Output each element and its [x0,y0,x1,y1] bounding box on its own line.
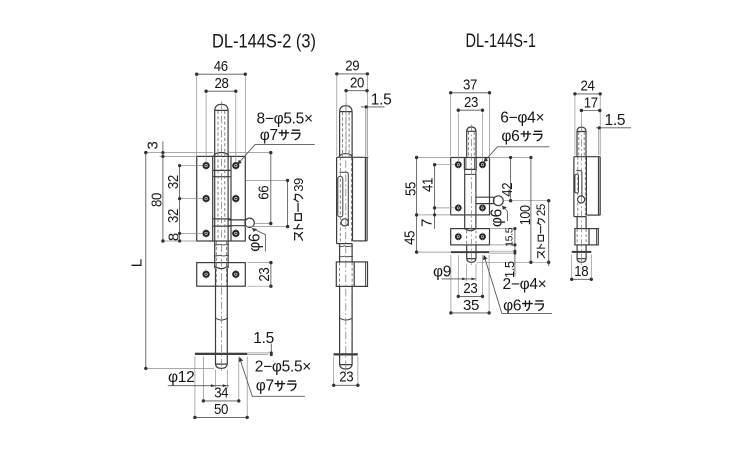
svg-text:46: 46 [214,58,228,75]
housing outer edges [213,156,231,241]
collar R [464,158,476,169]
dim text stroke25 [536,204,548,258]
dim line 23 side [334,384,358,386]
ext plate top left [160,155,197,157]
ext stroke39 bottom [244,226,288,228]
slot RS [575,174,579,193]
lower guide plate R [451,229,490,245]
svg-text:32: 32 [165,175,182,189]
hidden rod dashed in lower plate R [467,231,476,245]
svg-text:φ6: φ6 [503,298,521,315]
ext collar top level [146,152,272,154]
rod below block RS [577,245,586,251]
dim line 37 [451,92,490,94]
svg-text:6−φ4×: 6−φ4× [500,109,544,126]
lower band [213,219,231,226]
svg-text:φ6: φ6 [247,234,264,252]
ext 50 [195,357,247,420]
knob arm R [476,197,494,203]
rod dome R [467,127,476,131]
plate front RS [598,157,600,215]
svg-text:DL-144S-1: DL-144S-1 [466,30,537,52]
svg-text:23: 23 [464,94,478,111]
ext tip level left [146,367,214,369]
centerline [220,102,222,372]
svg-text:3: 3 [145,142,162,150]
leader 1.5 side [361,106,385,108]
rod hidden between plates dashed [216,242,226,286]
ext phi9 [467,264,476,282]
svg-text:φ12: φ12 [168,369,194,386]
svg-text:DL-144S-2 (3): DL-144S-2 (3) [212,31,316,53]
screw holes R [456,162,485,239]
svg-text:8: 8 [166,233,183,241]
dim line 41 and 7 [434,165,436,229]
svg-text:7: 7 [419,219,436,227]
lower block RS [575,229,598,245]
svg-text:18: 18 [574,263,588,280]
hidden rod dashed in body [340,157,351,243]
dim text stroke39 [291,178,306,240]
rod tip RS [577,253,586,262]
leader phi12 [168,385,229,387]
centerline R [470,125,472,266]
plate back line [366,157,368,241]
ext base plate right [247,353,272,355]
ext 29 [337,76,368,156]
rod solid below lower plate R [467,245,476,259]
ext 1.5 plate verticals [365,108,367,156]
collar inner lines R [466,158,475,169]
rod above body [340,112,353,158]
dim line 28 [206,90,236,92]
dim line 34 [203,400,238,402]
dim line 45 [416,215,418,252]
knob ball [245,218,254,227]
svg-text:37: 37 [463,77,477,94]
dim chain line [179,166,181,241]
ext 24 [575,96,600,156]
rod R [467,131,476,158]
dim line 24 [575,93,600,95]
taper notch R [464,169,476,174]
break squiggle lower [214,254,229,257]
svg-text:23: 23 [463,280,477,297]
screw holes lower plate [204,272,209,277]
rod hidden hole dashed [218,111,225,241]
recess outline [339,172,348,226]
ext 41 rows [437,165,456,208]
ext hole rows left [181,166,203,234]
sleeve socket arc in lower plate [215,266,228,269]
plate back RS [599,157,601,215]
svg-text:45: 45 [401,231,418,245]
hole center dots [205,165,237,276]
svg-text:φ6: φ6 [501,128,519,145]
ext 1.5 RS [599,129,601,155]
dim line 1.5 [270,344,272,357]
break squiggle upper [214,243,229,246]
svg-text:15.5: 15.5 [504,227,516,247]
bolt rod phi12 [216,268,228,364]
dim line 29 [337,73,368,75]
svg-text:8−φ5.5×: 8−φ5.5× [257,111,313,128]
dim line L [145,153,147,369]
dim line 80 [162,156,164,241]
svg-text:23: 23 [339,369,353,386]
svg-text:φ7: φ7 [256,378,274,395]
svg-text:23: 23 [256,268,273,282]
rod top dome [215,104,228,110]
main plate R [451,158,490,215]
ext 23 side [334,357,358,388]
hidden rod hole dashed above [343,112,350,157]
lower block divider [353,262,355,287]
svg-text:20: 20 [350,75,364,92]
body divider RS [585,157,587,215]
svg-text:φ7: φ7 [260,127,278,144]
sleeve bottom [337,243,353,245]
svg-text:28: 28 [215,75,229,92]
body top edge [337,156,369,158]
lower block plate line [365,262,367,287]
ext plate bottom left [162,240,197,242]
ext plate top right [490,157,533,159]
lower block plate line RS [596,229,598,245]
dim line 23 top R [458,109,482,111]
base plate bar R [451,251,489,253]
svg-text:1.5: 1.5 [605,112,626,129]
leader 8-phi5.5 [239,145,315,164]
centerline side [345,103,347,372]
break squiggle upper side [339,245,353,248]
dim line 15.5 and 1.5 [514,229,516,277]
ext 34 [203,357,238,403]
rod tip dome [216,364,228,368]
knob cylinder [228,220,245,226]
ext lines 28 [206,94,236,163]
knob side circle [341,219,348,226]
rod dome RS [577,127,586,131]
lower guide plate [197,263,246,287]
break squiggle lower side [339,255,353,258]
leader phi6 [252,228,265,251]
dim line 3 [162,142,164,157]
svg-text:25: 25 [536,204,548,216]
hidden rod dashed RS [578,157,586,217]
rod between body and block [340,244,353,262]
dim line stroke25 [548,201,550,266]
knob circle RS [578,196,585,203]
dim 23 lower plate [248,263,273,287]
upper band [213,170,231,176]
main plate [197,156,246,241]
ext tip level R [477,261,550,263]
svg-text:41: 41 [420,178,437,192]
collar dome [214,153,229,157]
knob ball R [493,196,503,206]
leader phi12 arrows [211,384,227,387]
ext phi12 [216,370,228,389]
leader 1.5 RS [596,127,631,129]
dim line 50 [195,416,247,418]
dim line 35 [451,312,489,314]
leader phi9 arrows [462,278,476,281]
ext 18 [572,255,592,282]
svg-text:1.5: 1.5 [371,91,392,108]
hidden rod dashed above RS [579,132,584,157]
base plate bar side [334,353,358,355]
svg-text:50: 50 [214,401,228,418]
ext 17 left [580,113,582,126]
svg-text:29: 29 [345,58,359,75]
svg-text:L: L [129,259,146,267]
svg-text:1.5: 1.5 [253,330,274,347]
recess RS [576,171,582,196]
hidden rod dashed in block [340,262,353,286]
plate front line [364,157,366,241]
hidden rod dashed above R [469,132,475,158]
sleeve R [465,174,476,229]
ext lines 46 [197,77,246,157]
dim line 46 [197,73,246,75]
ext 45 bottom [419,251,451,253]
dim line stroke39 [287,180,289,226]
svg-text:φ9: φ9 [433,264,451,281]
base plate bar [195,353,247,355]
dim line 23b [458,295,482,297]
slot [338,177,343,217]
rod above RS [577,132,586,157]
svg-text:80: 80 [148,193,165,207]
bolt rod sleeve lines [215,110,228,268]
leader 2-phi5.5 [240,360,305,397]
dim line 20 [346,90,367,92]
ext knob center right R [504,200,550,202]
body top edge RS [574,156,600,158]
dim line 42 [510,158,512,201]
ext 23 top R [458,113,482,162]
base plate bar RS [572,251,592,253]
body bottom RS [586,214,600,216]
ext 37 [451,95,490,156]
body bottom [353,240,368,242]
lower block [336,262,367,287]
svg-text:35: 35 [463,297,479,314]
ext 35 [451,255,489,315]
dim dots [144,73,289,420]
ext base plate right R [489,251,516,253]
leader 2-phi4 [485,258,552,314]
collar dome side [339,154,352,158]
svg-text:32: 32 [165,209,182,223]
screw holes main plate [204,163,239,277]
svg-text:φ6: φ6 [489,209,506,227]
svg-text:2−φ5.5×: 2−φ5.5× [255,359,311,376]
svg-text:24: 24 [581,78,595,95]
sleeve column [336,157,338,243]
svg-text:2−φ4×: 2−φ4× [503,276,547,293]
sleeve column RS [573,157,575,217]
rod break arc [216,318,228,320]
ext stroke39 top [246,179,288,181]
dim line 100 [530,158,532,263]
svg-text:66: 66 [256,186,273,200]
rod break arc side [340,318,353,320]
hole cross ticks [206,161,236,279]
rod tip side [340,355,353,369]
dim line 55 [416,158,418,215]
svg-text:34: 34 [214,385,228,402]
rod dome side [340,106,353,112]
rod below block [340,286,353,353]
svg-text:100: 100 [517,205,534,225]
ext 15.5 levels [490,229,516,245]
ext 20 left [345,93,347,152]
ext 55 rows [419,158,451,215]
svg-text:39: 39 [291,178,306,192]
dim line 66 [270,153,272,224]
hidden rod dashed in block RS [577,229,586,245]
svg-text:17: 17 [584,94,598,111]
dim line 18 [572,278,592,280]
centerline RS [581,125,583,265]
leader phi9 [442,278,476,280]
svg-text:42: 42 [499,183,516,197]
ext knob center right [255,223,272,225]
svg-text:55: 55 [402,182,419,196]
leader 6-phi4 [485,147,550,161]
rod between RS [577,217,586,229]
body divider [352,157,354,241]
sleeve socket arc R [465,228,476,230]
leader phi6 R [502,206,507,221]
dim line 17 [581,110,599,112]
ext 23b [458,255,482,298]
rod tip dome R [467,259,476,263]
lower block divider RS [588,229,590,245]
sleeve bottom RS [574,216,587,218]
